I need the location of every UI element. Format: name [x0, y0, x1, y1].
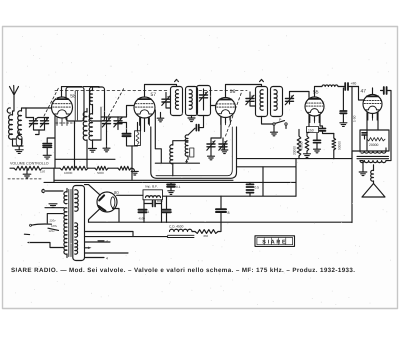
filter choke L6: [143, 185, 163, 223]
tube V2 type 57: [134, 97, 155, 126]
tap wires HT: [85, 232, 168, 254]
ground under C10: [168, 191, 174, 195]
trimmer CT6: [219, 138, 227, 150]
label 47: [361, 89, 367, 95]
output transformer core: [357, 156, 389, 158]
svg-text:1: 1: [171, 210, 173, 214]
voice coil L5: [371, 165, 374, 184]
ground in shield box: [221, 145, 228, 154]
wire V4 plate up: [315, 87, 323, 98]
label 56: [230, 89, 236, 95]
tube V6 type 80: [97, 192, 117, 212]
oscillator shield box: [151, 127, 237, 178]
plate choke L4: [322, 85, 345, 87]
svg-text:47: 47: [361, 89, 367, 95]
switch P: [262, 117, 288, 129]
capacitor C12 8uF: [216, 196, 230, 222]
wire V5 legs: [367, 112, 378, 151]
capacitor C10 on bus: [167, 182, 180, 190]
ground speaker: [359, 172, 367, 176]
capacitor C5: [320, 126, 334, 134]
trimmer CT5: [207, 138, 221, 156]
selector box: [47, 214, 63, 223]
svg-text:5000: 5000: [97, 171, 104, 175]
osc coil L3 box: [190, 148, 194, 157]
bus line B+ upper: [54, 179, 233, 181]
mains wire: [28, 243, 63, 248]
wire V6 plate: [85, 185, 101, 223]
resistor R11 20000: [293, 130, 301, 159]
label 5000: [97, 171, 104, 175]
output transformer secondary: [360, 161, 386, 163]
screen box right of V1: [66, 87, 84, 121]
ground volume chain: [131, 171, 138, 175]
gang dashed drop 1: [44, 87, 59, 116]
ground under CV3: [103, 148, 110, 152]
power transformer primary: [64, 189, 67, 258]
wire osc junction: [131, 146, 133, 180]
output transformer T4 primary: [360, 151, 386, 153]
svg-text:80: 80: [114, 190, 119, 195]
selector lever: [30, 224, 59, 230]
IF can T2 left: [171, 87, 183, 116]
coil box T1: [90, 87, 105, 121]
wire V1 legs down: [55, 117, 75, 168]
svg-text:10000: 10000: [64, 171, 73, 175]
ground under C6: [314, 149, 321, 153]
ground left of chain: [23, 168, 31, 178]
field coil L7: [168, 229, 195, 237]
resistor R10 450: [192, 222, 221, 237]
coil T1 top winding: [90, 88, 93, 111]
capacitor C8 on V5: [381, 87, 392, 161]
resistor R3 40000: [300, 133, 310, 154]
svg-text:4: 4: [106, 240, 108, 244]
svg-text:450: 450: [203, 234, 208, 238]
power transformer secondary windings: [75, 190, 78, 254]
svg-text:0.01: 0.01: [157, 199, 163, 203]
svg-text:SIARE RADIO. — Mod. Sei valvol: SIARE RADIO. — Mod. Sei valvole. – Valvo…: [11, 267, 355, 274]
label volume controllo: [10, 161, 49, 165]
label 57: [151, 92, 157, 98]
wire V3 legs: [221, 117, 230, 139]
wire V3 grid: [211, 105, 216, 107]
power transformer secondary box: [73, 186, 85, 261]
svg-text:C.D. 4500: C.D. 4500: [169, 225, 184, 229]
bottom bus: [89, 221, 353, 223]
tube V5 type 47: [363, 95, 382, 121]
capacitor C13 1uF: [139, 210, 150, 221]
trimmer CT2: [199, 89, 207, 110]
IF can T3 right: [271, 87, 283, 117]
svg-text:4: 4: [106, 256, 108, 260]
capacitor C14 0.01: [144, 199, 163, 207]
wire V6 filament: [113, 209, 120, 222]
ground under CT5: [208, 156, 215, 160]
label CD4500: [169, 225, 184, 229]
capacitor C9 1.2: [362, 133, 367, 139]
resistor chain R6: [10, 166, 60, 170]
capacitor C3 osc grid: [188, 116, 204, 136]
svg-text:56: 56: [230, 89, 236, 95]
wire B+ to T4: [352, 148, 391, 161]
capacitor C11 0.5: [247, 182, 260, 196]
resistor R5 20000: [367, 138, 385, 148]
svg-text:150: 150: [308, 128, 314, 132]
svg-text:VOLUME CONTROLLO: VOLUME CONTROLLO: [10, 161, 49, 165]
wire rail y158 right: [237, 159, 353, 197]
dashed wire bottom left: [8, 178, 41, 180]
trimmer CT4: [285, 92, 309, 105]
SIARE logo box: [255, 236, 295, 247]
wire antenna to coil: [7, 108, 14, 115]
tuning capacitor CV2: [36, 118, 49, 135]
tap wire arrow: [85, 247, 92, 249]
trimmer CT3: [246, 92, 256, 106]
IF can T3 left: [256, 87, 268, 117]
ground under R3: [304, 154, 311, 158]
resistor chain R7: [60, 166, 95, 170]
oscillator coil L2: [170, 141, 188, 176]
bus line B+ lower: [44, 181, 296, 183]
power transformer core: [69, 190, 71, 257]
svg-text:SIARE: SIARE: [262, 239, 287, 245]
svg-text:20000: 20000: [293, 146, 297, 155]
wire V2 plate to T2: [145, 85, 177, 98]
coil T1 right winding: [89, 110, 93, 148]
ground right of V2: [157, 113, 164, 122]
resistor R4 50000: [332, 134, 342, 159]
mains wire primary top: [42, 189, 63, 192]
svg-text:0.1: 0.1: [176, 185, 181, 189]
wire V5 grid: [359, 87, 364, 101]
gang dashed drop 2: [109, 88, 125, 116]
grid resistor box: [360, 130, 389, 151]
wire V2 grid: [118, 106, 134, 118]
svg-text:150: 150: [40, 169, 45, 173]
caption text: [11, 267, 355, 274]
wire grid input: [26, 108, 51, 118]
svg-text:+80: +80: [351, 82, 357, 86]
svg-text:58: 58: [70, 94, 76, 100]
wire V4 legs: [309, 115, 320, 127]
scan speckle noise: [6, 34, 391, 305]
wire T4 to ground: [360, 161, 363, 172]
tuning capacitor CV3: [101, 117, 118, 148]
wire y197: [163, 167, 297, 196]
mains dash: [24, 233, 29, 235]
arrow above T3: [260, 79, 264, 81]
wire V5 top: [372, 88, 374, 95]
label 10000: [64, 171, 73, 175]
label 0.5: [353, 115, 357, 122]
capacitor C6: [314, 134, 321, 150]
wire V3 plate: [226, 85, 262, 98]
svg-text:50000: 50000: [338, 141, 342, 150]
oscillator shield box inner: [156, 127, 232, 176]
svg-text:55: 55: [313, 90, 319, 96]
selector labels: [49, 219, 58, 234]
speaker cone: [362, 184, 385, 198]
ground under L1: [15, 150, 23, 154]
filament tap 4v b: [85, 256, 109, 260]
wire V6 to choke: [117, 194, 143, 196]
filament tap 4v a: [98, 240, 108, 244]
coil T1 left winding: [83, 109, 87, 168]
trimmer CT1: [162, 93, 171, 109]
svg-text:20000: 20000: [369, 143, 379, 147]
wire osc bottom: [155, 110, 199, 163]
svg-text:220v: 220v: [50, 219, 57, 223]
label 58: [70, 94, 76, 100]
ground under C7: [340, 123, 347, 127]
svg-text:1-50: 1-50: [353, 115, 357, 122]
tube V3 type 56: [216, 98, 236, 125]
wire T1 to gang: [93, 107, 102, 140]
label 55: [313, 90, 319, 96]
wire V2 legs: [141, 118, 149, 132]
svg-text:0.5: 0.5: [255, 186, 260, 190]
wire rail y158 left: [54, 159, 115, 182]
svg-text:Imp. B.F.: Imp. B.F.: [145, 185, 158, 189]
gang dashed drop 3: [226, 91, 243, 136]
resistor box 150: [307, 127, 319, 133]
wire V1 cathode tee: [47, 138, 55, 144]
label 150: [40, 169, 45, 173]
wire V1 plate to top rail: [62, 87, 100, 97]
antenna coil L1 secondary: [18, 108, 26, 146]
svg-text:57: 57: [151, 92, 157, 98]
capacitor C15 1uF: [163, 196, 173, 222]
ground mains: [45, 204, 64, 208]
ground under switch: [271, 125, 278, 136]
IF can T2 right: [186, 87, 198, 116]
tuning capacitor CV4: [114, 117, 127, 130]
resistor chain R9: [118, 166, 135, 171]
antenna A1: [10, 86, 19, 112]
label 80: [114, 190, 119, 195]
svg-text:450v: 450v: [139, 217, 146, 221]
grid box V3: [197, 86, 211, 116]
antenna coil L1 primary: [9, 115, 23, 146]
capacitor C1 cathode bypass: [43, 144, 52, 156]
capacitor C7: [340, 88, 347, 123]
gang dashed line: [55, 90, 247, 92]
tuning capacitor CV1: [29, 118, 44, 131]
B+ vertical right: [351, 88, 353, 223]
tube V1 type 58: [52, 97, 73, 126]
arrow into line: [185, 160, 188, 164]
resistor chain R8: [95, 166, 118, 170]
ground under T2: [188, 116, 195, 122]
fuse capsule: [13, 132, 23, 150]
ground under T1: [89, 149, 97, 153]
oscillator coil L3: [185, 135, 188, 160]
arrow above T2: [175, 79, 179, 81]
tube V4 type 55: [305, 97, 324, 123]
ground under C1: [43, 155, 51, 159]
capacitor C4 coupling: [345, 82, 358, 91]
svg-text:8: 8: [228, 211, 230, 215]
capacitor C2 osc: [123, 123, 138, 146]
svg-text:1: 1: [148, 210, 150, 214]
tube V1 base dashes: [56, 122, 75, 124]
resistor R2 box: [135, 123, 141, 146]
